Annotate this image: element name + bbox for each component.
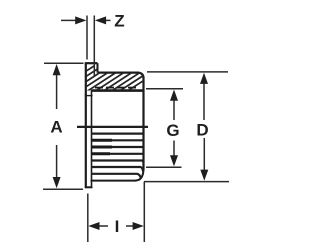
arrowhead I right [133,222,144,230]
wire left face [85,63,87,188]
wire Z ext line right [93,16,95,77]
svg-text:G: G [166,121,179,140]
arrowhead G bottom [170,155,178,166]
part body outline [85,63,144,188]
wire G shaft top [173,97,175,120]
wire Z ext line left [86,16,88,60]
dimension Z [61,16,111,77]
dimension I [88,182,145,242]
wire thread line 6 [92,161,144,164]
wire flange top [98,73,144,78]
wire thread line 2 [92,133,144,135]
wire A top ext line [44,62,84,64]
svg-text:Z: Z [114,12,124,31]
arrowhead A top [53,64,61,75]
wire foot bottom [85,186,93,188]
thread lines [77,127,148,178]
dimension A [43,63,84,189]
arrowhead D bottom [200,170,208,181]
wire thread line 8 [92,174,141,178]
arrowhead A bottom [53,177,61,188]
arrowhead I left [88,222,99,230]
wire D shaft top [203,80,205,120]
wire D shaft bottom [203,138,205,173]
wire neck tick [85,95,93,97]
arrowhead Z right [95,16,106,24]
wire G bottom ext line [146,166,182,168]
wire G top ext line [146,88,183,90]
arrowhead D top [200,73,208,84]
wire bottom edge [91,180,137,182]
wire thread line 3 [92,139,144,141]
arrowhead Z left [75,16,86,24]
wire thread line 7 [92,167,144,172]
wire rim step [97,63,99,72]
wire right face [142,77,144,170]
wire D top ext line [147,71,228,73]
wire inner left wall [91,90,93,187]
wire rim top [85,62,98,64]
wire Z arrow line right [104,19,111,21]
svg-text:I: I [115,217,120,236]
wire G shaft bottom [173,141,175,159]
svg-text:A: A [50,118,62,137]
dimension G [146,89,183,168]
dimension D [144,72,229,182]
wire flange bottom [92,89,144,92]
wire I left ext line [87,194,89,243]
svg-text:D: D [196,121,208,140]
wire thread line 5 [92,153,144,155]
arrowhead G top [170,90,178,101]
hatch bottom dashes [95,87,136,89]
wire I arrow line right [126,225,134,227]
wire thread line 1 [77,126,148,128]
wire D bottom ext line [144,181,229,183]
wire thread line 4 [92,146,144,148]
wire A shaft bottom [56,145,58,179]
wire I right ext line [143,182,145,242]
thread left dark overlay [92,140,113,154]
wire Z arrow line left [61,19,77,21]
wire A shaft top [56,72,58,109]
wire I arrow line left [97,225,108,227]
hatching of flange section [46,66,166,92]
wire A bottom ext line [43,188,83,190]
wire bottom right round [136,170,144,181]
